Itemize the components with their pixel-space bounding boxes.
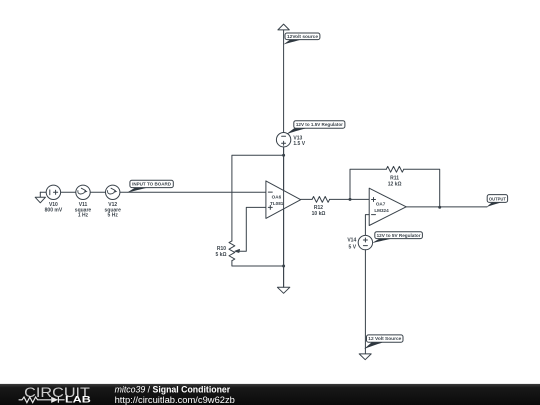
- svg-text:1 Hz: 1 Hz: [78, 212, 89, 218]
- svg-text:12Volt source: 12Volt source: [287, 34, 319, 39]
- svg-text:5 kΩ: 5 kΩ: [216, 252, 227, 258]
- svg-text:1.5 V: 1.5 V: [293, 141, 305, 147]
- svg-text:TL081: TL081: [270, 201, 284, 206]
- svg-text:V14: V14: [347, 238, 356, 244]
- svg-text:http://circuitlab.com/c9w62zb: http://circuitlab.com/c9w62zb: [115, 395, 235, 405]
- svg-text:mitco39 / Signal Conditioner: mitco39 / Signal Conditioner: [115, 384, 231, 394]
- svg-text:LAB: LAB: [65, 394, 91, 405]
- svg-text:OA7: OA7: [376, 201, 386, 206]
- svg-text:12 kΩ: 12 kΩ: [388, 182, 402, 188]
- svg-text:OUTPUT: OUTPUT: [489, 196, 506, 201]
- svg-text:OA6: OA6: [272, 195, 282, 200]
- svg-text:800 mV: 800 mV: [45, 207, 63, 213]
- svg-text:5 V: 5 V: [349, 245, 357, 251]
- svg-text:5 Hz: 5 Hz: [108, 212, 119, 218]
- svg-text:LM324: LM324: [374, 208, 389, 213]
- svg-text:12V to 1.5V Regulator: 12V to 1.5V Regulator: [296, 122, 343, 127]
- svg-text:INPUT TO BOARD: INPUT TO BOARD: [132, 182, 171, 187]
- svg-text:12V to 5V Regulator: 12V to 5V Regulator: [377, 233, 421, 238]
- svg-text:10 kΩ: 10 kΩ: [312, 211, 326, 217]
- svg-text:12 Volt Source: 12 Volt Source: [368, 336, 402, 341]
